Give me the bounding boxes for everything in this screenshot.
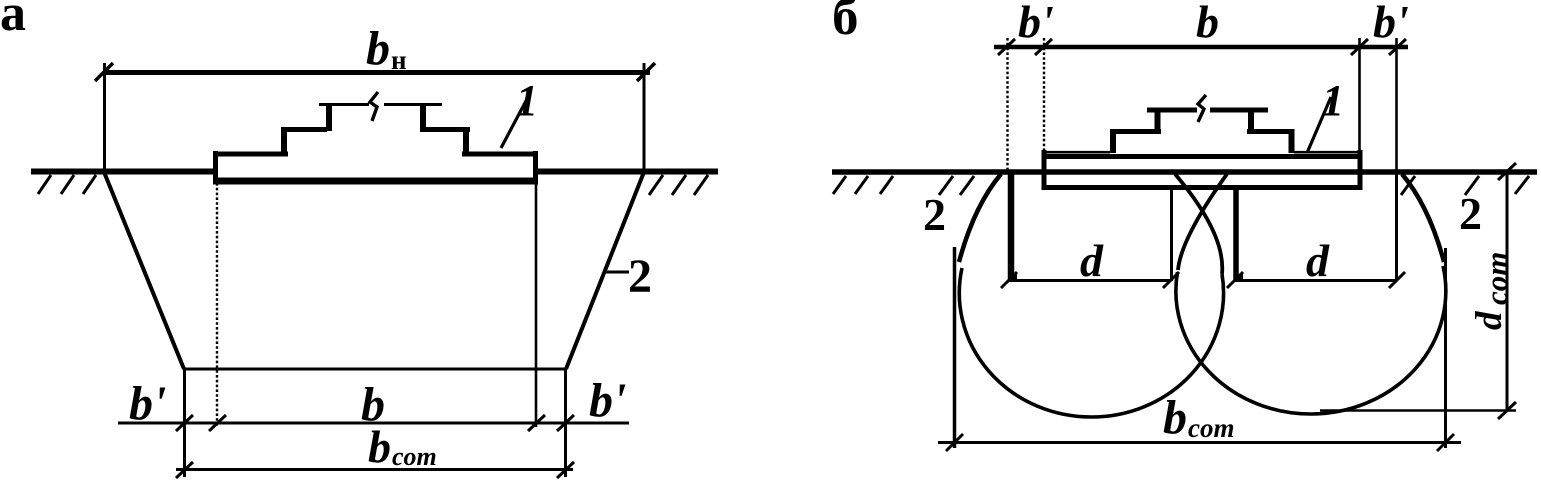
slab thin top line right segment (1294, 151, 1360, 154)
hatch right diagram left 3 (880, 176, 893, 194)
tick top at 1397 (1389, 39, 1406, 55)
tick bcom right (557, 462, 574, 478)
ground hatch right 2 (672, 175, 686, 195)
hatch right diagram left 2 (855, 176, 868, 194)
step1 top right segment right diagram (1247, 129, 1294, 134)
extension top at 1007 (1006, 38, 1008, 171)
step2 top right segment right diagram (1210, 108, 1268, 113)
step2 top left segment right diagram (1147, 108, 1197, 113)
slab left edge (1042, 150, 1047, 190)
hatch right diagram right 2 (1465, 176, 1479, 195)
tick dcom top (1498, 163, 1516, 180)
tick top at 1006 (998, 39, 1015, 55)
step2 top line left part (319, 103, 369, 106)
tick d right 1 (1227, 272, 1243, 288)
hatch right diagram left 5 (960, 176, 974, 195)
step2 left vertical right diagram (1155, 108, 1161, 133)
extension top at 1044 (1043, 38, 1045, 154)
pit bottom (184, 368, 566, 371)
tick top at 1043 (1035, 39, 1052, 55)
ground line right of slab (536, 169, 718, 175)
step1 left vertical (281, 127, 287, 154)
svg-text:а: а (0, 0, 26, 42)
extension pit bottom left down (183, 369, 186, 477)
extension footing left edge down (216, 183, 218, 427)
svg-text:d: d (1306, 235, 1330, 286)
slab thin top line left segment (1044, 151, 1110, 154)
hatch right diagram left 4 (939, 176, 953, 195)
step2 right vertical (420, 104, 426, 131)
leader line 2 (604, 271, 629, 274)
svg-text:2: 2 (923, 189, 946, 240)
ground line right diagram (832, 169, 1537, 175)
tick b at 536 (528, 415, 545, 431)
d dimension line right (1234, 279, 1397, 282)
label dcom (rotated) (1469, 252, 1514, 330)
svg-text:d: d (1080, 235, 1104, 286)
leader line 1 right diagram (1307, 97, 1331, 153)
tick right of bн (637, 63, 655, 81)
tick bcom left right diagram (946, 434, 963, 451)
step1 right vertical (463, 127, 469, 154)
svg-text:b': b' (589, 374, 626, 427)
svg-text:2: 2 (628, 250, 652, 303)
svg-text:1: 1 (1322, 76, 1344, 125)
hatch right diagram left 1 (833, 176, 846, 194)
hatch right diagram right 1 (1401, 176, 1415, 195)
ground line left of slab (31, 169, 215, 175)
leader line 1 (501, 99, 527, 148)
dimension line top (994, 45, 1408, 50)
extension top at 1397 (1395, 38, 1398, 171)
svg-text:b: b (1163, 391, 1187, 444)
break mark (370, 92, 378, 121)
ground hatch left 1 (38, 175, 51, 194)
svg-text:b': b' (1018, 0, 1054, 47)
dcom dimension line (1506, 171, 1509, 411)
extension pit bottom right down (564, 369, 567, 477)
svg-text:2: 2 (1459, 188, 1482, 239)
hatch right diagram right 3 (1515, 176, 1529, 194)
left shaft right edge (1170, 190, 1173, 281)
dimension line bн (103, 70, 650, 75)
svg-text:b': b' (1373, 0, 1409, 47)
right circle lower arc (bored pier) (1176, 266, 1446, 414)
svg-text:1: 1 (516, 76, 538, 125)
svg-text:b: b (366, 22, 390, 75)
left shaft left edge (1008, 172, 1015, 281)
extension top at 1359 (1358, 38, 1361, 152)
tick d left 2 (1163, 272, 1179, 288)
footing slab right edge (533, 151, 538, 184)
extension line right (bн) (643, 63, 646, 171)
pit left slope (104, 172, 184, 369)
dimension line b (118, 422, 629, 425)
footing slab top left segment (213, 152, 288, 157)
tick d right 2 (1389, 272, 1405, 288)
ground hatch left 3 (83, 175, 96, 194)
slab right edge (1358, 150, 1363, 190)
ground hatch right 1 (649, 175, 663, 195)
tick left of bн (95, 63, 113, 81)
dot d right (1236, 274, 1243, 281)
step1 left vertical right diagram (1110, 129, 1116, 153)
bcom dimension line right diagram (938, 441, 1461, 444)
svg-text:b': b' (129, 377, 166, 430)
slab bottom thick (1042, 185, 1359, 190)
right shaft left edge (1233, 190, 1239, 281)
step1 right vertical right diagram (1289, 129, 1295, 153)
left circle lower arc (bored pier) (959, 268, 1223, 417)
svg-text:com: com (1188, 413, 1235, 443)
right shaft right edge (1395, 172, 1398, 281)
tick top at 1359 (1351, 39, 1368, 55)
extension line left (bн) (103, 63, 106, 171)
footing slab bottom (213, 178, 538, 185)
svg-text:com: com (392, 442, 437, 471)
tick d left 1 (1001, 272, 1017, 288)
tick bcom right right diagram (1437, 434, 1454, 451)
slab top thick (1042, 154, 1362, 159)
tick b at 217 (209, 415, 226, 431)
svg-text:com: com (1479, 252, 1514, 305)
footing slab top right segment (462, 152, 538, 157)
right funnel wall left (1178, 174, 1227, 270)
step1 top left segment right diagram (1110, 129, 1161, 134)
bcom left extension right diagram (953, 247, 957, 448)
svg-text:н: н (391, 45, 407, 75)
break mark right diagram (1198, 95, 1206, 122)
ground hatch left 2 (61, 175, 74, 194)
dot d left (1010, 274, 1017, 281)
step2 right vertical right diagram (1248, 108, 1254, 133)
tick b at 184 (176, 415, 193, 431)
tick bcom left (176, 462, 193, 478)
step2 top line right part (384, 103, 442, 106)
step1 top right segment (420, 127, 470, 132)
left funnel wall left (959, 174, 1001, 262)
step2 left vertical (326, 104, 332, 131)
extension footing right edge down (535, 184, 538, 427)
svg-text:b: b (368, 421, 391, 472)
left funnel wall right (1175, 174, 1222, 274)
right funnel wall right (1402, 174, 1444, 262)
dimension line bcom (176, 468, 573, 471)
step1 top left segment (281, 127, 327, 132)
svg-text:б: б (832, 0, 859, 46)
dcom bottom extension (1320, 409, 1516, 412)
tick b at 565 (557, 415, 574, 431)
svg-text:b: b (1196, 0, 1219, 47)
ground hatch right 3 (694, 175, 708, 195)
tick dcom bottom (1498, 402, 1516, 419)
footing slab left edge (213, 151, 218, 184)
bcom right extension right diagram (1444, 248, 1447, 448)
d dimension line left (1008, 279, 1170, 282)
pit right slope (566, 172, 644, 369)
svg-text:d: d (1469, 311, 1510, 330)
